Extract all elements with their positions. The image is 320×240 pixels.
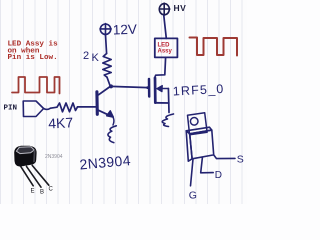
resistor R2 4K7 <box>51 103 78 112</box>
package drawing: TO-92 (2N3904) body <box>14 146 36 167</box>
svg-text:D: D <box>215 170 222 181</box>
wire: PIN connector to resistor 4K7 <box>44 108 51 109</box>
ground (Q2 source) <box>162 114 173 127</box>
connector J1 PIN <box>23 101 43 117</box>
wire: 4K7 to Q1 base <box>78 106 96 108</box>
svg-text:1RF5_0: 1RF5_0 <box>172 82 224 99</box>
transistor Q1 2N3904 (NPN) <box>97 87 114 125</box>
wire: 2K to collector junction <box>107 77 110 85</box>
svg-text:2N3904: 2N3904 <box>45 154 63 160</box>
svg-text:Assy: Assy <box>158 49 173 55</box>
resistor R1 2K <box>103 54 111 78</box>
package drawing: TO-92 legs <box>21 165 49 187</box>
svg-text:G: G <box>189 190 197 202</box>
wire: 12V to resistor 2K <box>106 35 107 54</box>
power supply +12V <box>100 24 111 36</box>
wire: LED assy to Q2 drain <box>155 57 166 78</box>
wire: HV to LED assy box <box>164 16 167 39</box>
svg-text:PIN: PIN <box>4 104 18 112</box>
package drawing: TO-220 body <box>186 127 214 161</box>
power supply HV <box>159 3 170 15</box>
label LED Assy (red) <box>158 43 173 55</box>
svg-text:HV: HV <box>174 3 187 13</box>
node: collector junction <box>109 84 113 88</box>
ground (Q1 emitter) <box>108 126 116 143</box>
svg-text:4K7: 4K7 <box>48 114 74 131</box>
svg-text:2N3904: 2N3904 <box>79 152 132 172</box>
svg-text:12V: 12V <box>113 22 138 38</box>
module U1 LED Assy box <box>155 38 178 57</box>
svg-text:Pin is Low.: Pin is Low. <box>8 54 58 62</box>
annotation: red note "LED Assy is on when Pin is Low." <box>8 41 59 63</box>
transistor Q2 IRF5_0 (N-MOSFET) <box>149 78 169 113</box>
pin labels E B C <box>31 187 54 196</box>
svg-text:K: K <box>92 52 100 64</box>
svg-text:S: S <box>237 153 244 165</box>
svg-text:C: C <box>49 187 54 193</box>
svg-text:B: B <box>40 190 44 196</box>
svg-text:E: E <box>31 189 35 195</box>
package pin G lead <box>191 159 194 186</box>
waveform: LED drive square wave (red, top right) <box>190 38 238 56</box>
package pin S lead <box>214 155 235 159</box>
package pin D lead <box>201 157 214 172</box>
svg-text:2: 2 <box>83 50 89 62</box>
waveform: PIN input square wave (red, left) <box>12 77 60 94</box>
package drawing: TO-220 (IRF5_0) tab with hole <box>188 113 208 135</box>
wire: junction to MOSFET gate <box>111 86 148 87</box>
